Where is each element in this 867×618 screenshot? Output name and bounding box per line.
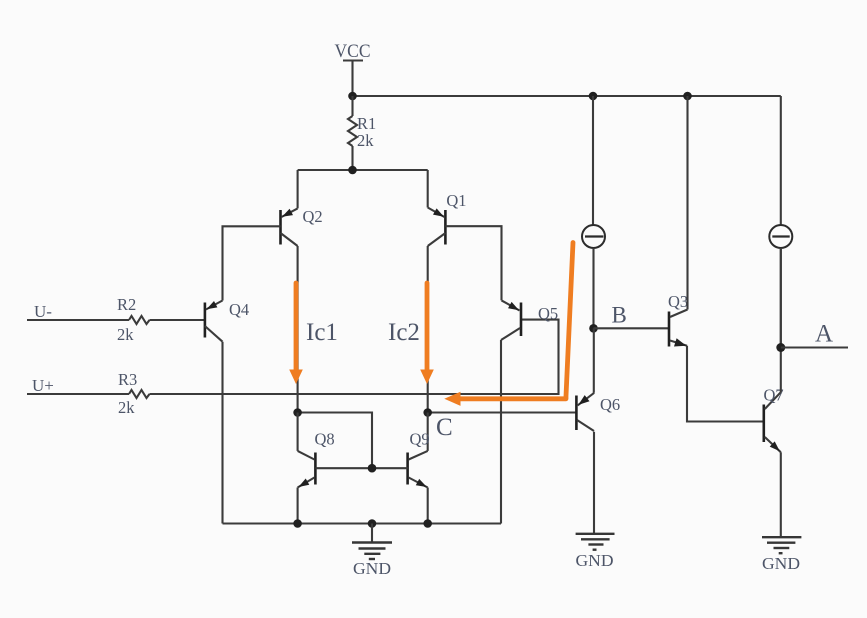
svg-text:R3: R3 <box>118 370 137 389</box>
transistor Q7 <box>764 386 784 453</box>
node junction C left <box>293 408 302 417</box>
wire Q7 collector to node A <box>780 248 782 392</box>
svg-text:GND: GND <box>576 551 614 570</box>
svg-text:GND: GND <box>762 554 800 573</box>
svg-text:Q4: Q4 <box>229 300 249 319</box>
svg-text:U+: U+ <box>32 376 54 395</box>
transistor Q2 <box>281 170 323 246</box>
current source I2 <box>769 96 792 348</box>
resistor R2 <box>117 295 150 344</box>
wire Q9 emitter <box>427 488 429 524</box>
svg-text:Q1: Q1 <box>446 191 466 210</box>
wire Q2 base to Q4 emitter <box>223 226 281 300</box>
wire mirror base rail <box>315 467 407 469</box>
svg-text:U-: U- <box>34 302 52 321</box>
svg-text:A: A <box>815 321 833 348</box>
current arrow Ic2 <box>388 283 434 384</box>
svg-text:2k: 2k <box>117 325 134 344</box>
node junction top rail at Q3 collector <box>683 92 692 101</box>
wire node C to Q6 base <box>428 411 577 413</box>
resistor R1 <box>348 96 376 170</box>
svg-text:GND: GND <box>353 559 391 578</box>
svg-text:2k: 2k <box>118 398 135 417</box>
wire node C to mirror base <box>298 413 372 469</box>
wire emitter rail Q2-Q1 <box>298 169 428 171</box>
node junction mirror base <box>368 464 377 473</box>
node junction bottom rail Q9 <box>423 519 432 528</box>
wire R3 to Q5 base <box>150 320 559 394</box>
wire Q2 collector <box>297 246 299 413</box>
wire bottom rail <box>223 522 502 524</box>
wire Q3 collector <box>686 96 688 310</box>
wire Q5 collector <box>500 340 502 524</box>
transistor Q1 <box>428 170 467 246</box>
wire R2 to Q4 base <box>150 319 205 321</box>
power symbol VCC <box>335 41 371 62</box>
svg-text:R2: R2 <box>117 295 136 314</box>
node junction top rail at current source 1 <box>589 92 598 101</box>
svg-text:B: B <box>612 303 627 328</box>
node junction top rail at R1 <box>348 92 357 101</box>
node junction C <box>423 408 432 417</box>
wire Q4 collector <box>221 342 223 524</box>
transistor Q5 <box>501 300 558 340</box>
svg-text:Q2: Q2 <box>303 207 323 226</box>
wire U+ input <box>27 393 129 395</box>
wire U- input <box>27 319 129 321</box>
wire Q1 collector <box>427 246 429 413</box>
wire node A output <box>781 346 848 348</box>
resistor R3 <box>118 370 150 417</box>
svg-text:2k: 2k <box>357 131 374 150</box>
wire Q6 collector <box>593 432 595 534</box>
svg-text:C: C <box>436 414 453 441</box>
node junction bottom rail gnd <box>368 519 377 528</box>
transistor Q6 <box>576 328 620 431</box>
svg-text:Q9: Q9 <box>410 430 430 449</box>
node B <box>589 324 598 333</box>
svg-text:Q5: Q5 <box>538 304 558 323</box>
wire Q8 emitter <box>297 488 299 524</box>
wire VCC stem <box>351 61 353 97</box>
svg-text:VCC: VCC <box>335 41 371 62</box>
svg-text:Ic1: Ic1 <box>306 319 338 346</box>
transistor Q3 <box>668 292 688 347</box>
node junction rail at R1 bottom <box>348 166 357 175</box>
wire B to Q3 base <box>594 327 670 329</box>
svg-text:Ic2: Ic2 <box>388 319 420 346</box>
wire Q3 emitter to Q7 base <box>687 346 764 422</box>
svg-text:Q3: Q3 <box>668 292 688 311</box>
current arrow Ic1 <box>289 283 338 384</box>
node junction bottom rail Q8 <box>293 519 302 528</box>
ground GND center <box>352 524 392 579</box>
current source I1 <box>582 96 605 328</box>
svg-text:Q8: Q8 <box>315 430 335 449</box>
transistor Q8 <box>298 413 335 488</box>
ground GND Q6 <box>576 534 615 570</box>
node A <box>776 343 785 352</box>
transistor Q9 <box>408 413 430 488</box>
wire Q7 emitter <box>780 452 782 537</box>
wire top rail <box>353 95 781 97</box>
wire Q1 base to Q5 emitter <box>445 226 501 300</box>
orange feedback arrow <box>444 243 573 406</box>
transistor Q4 <box>205 300 249 342</box>
ground GND Q7 <box>762 537 801 573</box>
svg-text:Q6: Q6 <box>600 395 620 414</box>
